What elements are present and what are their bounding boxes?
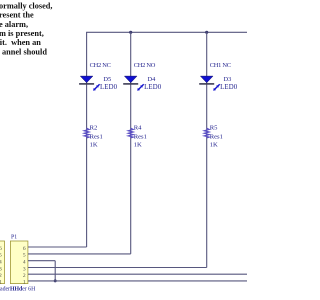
svg-text:ormally closed,: ormally closed,	[0, 2, 52, 11]
svg-text:annel should: annel should	[2, 47, 47, 56]
connector P1 body	[10, 241, 28, 284]
connector P1 pin numbers	[23, 246, 26, 286]
wire pin4 horizontal	[28, 260, 55, 262]
svg-text:1: 1	[0, 280, 2, 286]
wire top bus	[86, 31, 247, 33]
svg-text:R2: R2	[90, 125, 98, 132]
svg-text:3: 3	[0, 266, 2, 272]
wire branch1 vertical	[86, 32, 88, 247]
svg-text:Res1: Res1	[134, 133, 147, 140]
svg-text:CH2 NC: CH2 NC	[90, 62, 111, 69]
node junction pin4-pin1	[54, 279, 57, 282]
svg-text:LED0: LED0	[144, 84, 162, 91]
resistor R4 labels	[134, 125, 147, 149]
resistor R5	[204, 128, 209, 138]
resistor R5 labels	[210, 125, 223, 149]
svg-text:1K: 1K	[210, 141, 218, 148]
svg-text:2: 2	[0, 273, 2, 279]
svg-text:LED0: LED0	[220, 84, 238, 91]
svg-text:m is present,: m is present,	[0, 29, 44, 38]
svg-text:R5: R5	[210, 125, 218, 132]
node junction bus-branch2	[129, 31, 132, 34]
svg-text:e alarm,: e alarm,	[0, 20, 28, 29]
svg-text:CH1 NC: CH1 NC	[210, 62, 231, 69]
svg-text:1K: 1K	[90, 141, 98, 148]
svg-text:D3: D3	[224, 76, 232, 83]
connector P2 partial body	[0, 241, 5, 284]
svg-text:3: 3	[23, 266, 26, 272]
svg-text:4: 4	[0, 260, 2, 266]
svg-text:lit. when an: lit. when an	[0, 38, 41, 47]
LED D3	[199, 76, 220, 91]
wire pin1 long	[28, 280, 247, 282]
resistor R2	[84, 128, 89, 138]
svg-text:LED0: LED0	[100, 84, 118, 91]
resistor R2 labels	[90, 125, 103, 149]
node junction bus-branch3	[205, 31, 208, 34]
svg-text:D5: D5	[103, 76, 111, 83]
svg-text:2: 2	[23, 273, 26, 279]
wire pin3 to branch3	[28, 267, 207, 269]
svg-text:CH2 NO: CH2 NO	[134, 62, 156, 69]
wire branch3 vertical	[206, 32, 208, 267]
LED D5	[79, 76, 100, 91]
wire pin4 drop vertical	[54, 261, 56, 281]
wire pin6 to branch1	[28, 246, 87, 248]
svg-text:5: 5	[0, 253, 2, 259]
svg-text:1K: 1K	[134, 141, 142, 148]
wire pin5 to branch2	[28, 253, 131, 255]
svg-text:Res1: Res1	[210, 133, 223, 140]
svg-text:R4: R4	[134, 125, 142, 132]
svg-text:1: 1	[23, 280, 26, 286]
svg-text:aderHHder 6H: aderHHder 6H	[0, 286, 36, 292]
wire pin2 long	[28, 273, 247, 275]
svg-text:D4: D4	[148, 76, 157, 83]
connector P2 pin numbers (cut)	[0, 246, 2, 286]
svg-text:6: 6	[0, 246, 2, 252]
LED D5 labels	[100, 76, 118, 91]
LED D3 labels	[220, 76, 238, 91]
note text	[0, 2, 52, 57]
svg-text:resent the: resent the	[0, 11, 34, 20]
wire branch2 vertical	[130, 32, 132, 254]
resistor R4	[128, 128, 133, 138]
svg-text:P1: P1	[11, 234, 17, 240]
svg-text:Res1: Res1	[90, 133, 103, 140]
svg-text:6: 6	[23, 246, 26, 252]
svg-text:5: 5	[23, 253, 26, 259]
svg-text:4: 4	[23, 260, 26, 266]
LED D4	[123, 76, 144, 91]
LED D4 labels	[144, 76, 162, 91]
